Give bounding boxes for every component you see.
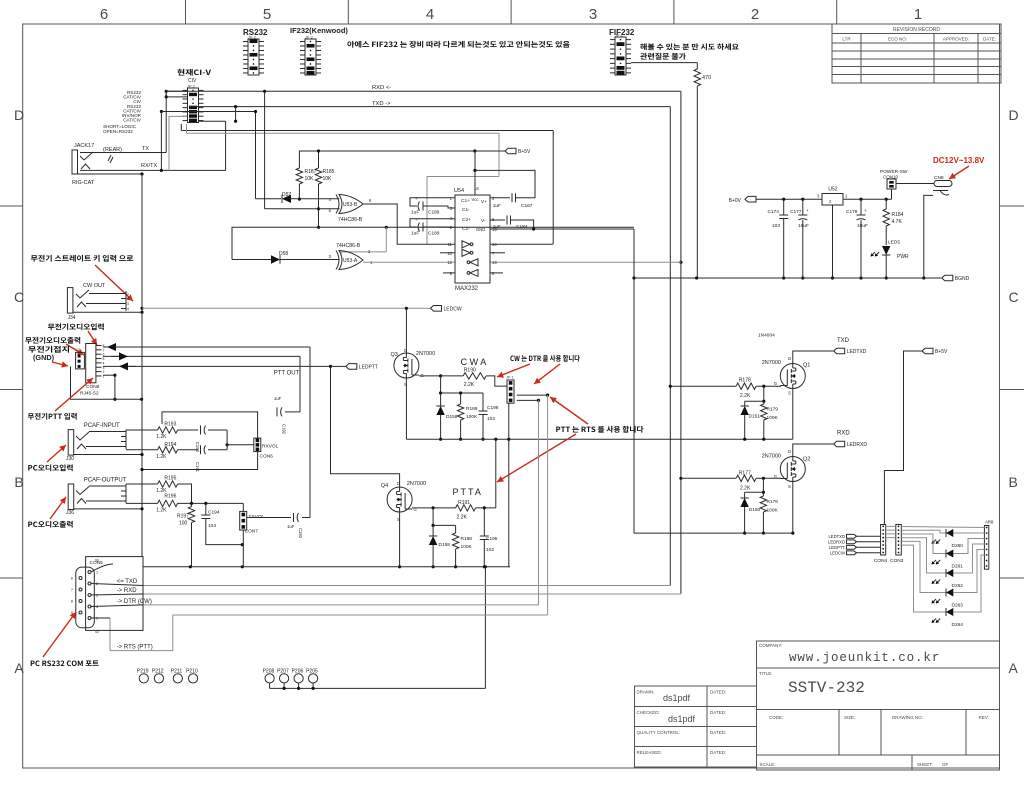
svg-text:1: 1	[914, 6, 922, 23]
svg-text:102: 102	[486, 547, 494, 553]
wires JP-1 right	[517, 394, 548, 396]
svg-text:PWR: PWR	[897, 254, 909, 260]
svg-text:103: 103	[772, 223, 780, 229]
svg-text:2N7000: 2N7000	[762, 360, 781, 366]
svg-text:2.2K: 2.2K	[740, 393, 751, 399]
svg-text:CODE:: CODE:	[769, 715, 783, 720]
svg-text:www.joeunkit.co.kr: www.joeunkit.co.kr	[789, 651, 940, 665]
svg-text:B+5V: B+5V	[518, 149, 531, 155]
svg-text:MAX232: MAX232	[455, 286, 479, 292]
wire sleeve	[73, 311, 142, 313]
svg-text:Q4: Q4	[381, 483, 388, 489]
vertical from CON8 row1	[309, 347, 311, 518]
note: radio ground	[28, 346, 69, 353]
wire Q1 drain to LEDTXD	[793, 351, 834, 364]
wire pads bottom	[270, 687, 486, 689]
wires CON4-CON3	[886, 525, 896, 527]
note: radio audio output	[25, 337, 80, 344]
svg-text:PCAF-OUTPUT: PCAF-OUTPUT	[84, 478, 127, 484]
connector CON8 RJ45-S2	[86, 344, 96, 383]
svg-text:V+: V+	[481, 199, 487, 205]
svg-text:R196: R196	[164, 494, 176, 500]
svg-text:R189: R189	[466, 406, 478, 412]
svg-text:+: +	[415, 217, 418, 222]
svg-text:D264: D264	[952, 622, 964, 628]
wires jack to pins	[89, 293, 121, 295]
wire Q2 drain to LEDRXD	[793, 444, 834, 457]
svg-text:10: 10	[447, 251, 452, 256]
JP-1 bottom vertical	[508, 403, 510, 567]
svg-text:BGND: BGND	[955, 276, 970, 282]
svg-text:1uF: 1uF	[411, 231, 419, 237]
wire jack sleeve	[74, 454, 142, 456]
capacitor C188 1uF	[410, 198, 455, 206]
wire jack sleeve J36	[74, 508, 142, 510]
svg-text:U53-A: U53-A	[343, 258, 358, 264]
RTS lower run	[110, 615, 173, 651]
svg-text:1uF: 1uF	[274, 396, 282, 401]
rail y567	[143, 566, 510, 568]
wire CI-V left pins	[166, 90, 187, 92]
svg-text:CON3: CON3	[890, 558, 904, 564]
svg-text:D151: D151	[749, 414, 761, 420]
svg-text:LEDCW: LEDCW	[830, 551, 845, 556]
svg-text:+: +	[806, 208, 809, 213]
capacitor C187 1uF	[490, 197, 510, 199]
svg-text:LEDCW: LEDCW	[444, 306, 462, 312]
wire CI-V to D57	[161, 111, 255, 113]
wire audio out row	[103, 346, 310, 348]
note: PC RS232 COM port	[31, 660, 99, 666]
rail y533	[634, 532, 793, 534]
svg-text:2.2K: 2.2K	[740, 486, 751, 492]
svg-text:ds1pdf: ds1pdf	[663, 693, 691, 703]
svg-text:B: B	[14, 474, 23, 490]
svg-text:C178: C178	[846, 209, 858, 215]
svg-text:2.2K: 2.2K	[457, 515, 468, 521]
note: FIF232 varies by rig	[347, 41, 569, 48]
wire LEDCW	[140, 307, 143, 310]
svg-text:1.2K: 1.2K	[156, 508, 167, 514]
svg-text:RXVOL: RXVOL	[262, 444, 279, 450]
svg-text:SIZE:: SIZE:	[844, 715, 855, 720]
box bus	[142, 557, 144, 631]
svg-text:LEDRXD: LEDRXD	[847, 442, 868, 448]
svg-text:C187: C187	[521, 203, 533, 209]
resistor 470	[631, 62, 697, 64]
capacitor C193 1uF	[294, 513, 299, 522]
svg-text:R176: R176	[767, 499, 779, 505]
diode D150	[744, 492, 746, 498]
capacitor C184 1uF	[490, 219, 505, 221]
svg-text:CON4: CON4	[874, 558, 888, 564]
svg-text:RELEASED:: RELEASED:	[637, 750, 662, 755]
diode D159	[440, 393, 442, 406]
svg-text:102: 102	[487, 416, 495, 422]
wire PTT row	[103, 365, 331, 367]
svg-text:TXD: TXD	[837, 338, 850, 344]
wire gate A output gray	[363, 261, 455, 263]
svg-text:C1-: C1-	[462, 207, 470, 213]
svg-text:D: D	[788, 356, 791, 361]
LED D261	[901, 534, 946, 554]
svg-text:CIV: CIV	[188, 78, 197, 84]
resistor R197 100	[191, 503, 193, 506]
LED D264	[901, 545, 946, 612]
connector CON6 RXVOL	[254, 438, 261, 452]
ground rail BGND	[634, 277, 942, 279]
svg-text:D: D	[1009, 107, 1019, 123]
long vertical to P205 row	[484, 565, 487, 568]
svg-text:D261: D261	[952, 564, 964, 570]
svg-text:2: 2	[751, 6, 759, 23]
svg-text:66: 66	[95, 559, 99, 563]
svg-text:LED5: LED5	[888, 240, 900, 246]
pull-down network D159 R189 C196	[440, 376, 442, 393]
LED D263	[901, 541, 946, 592]
wire to CON6	[226, 430, 228, 445]
connector CON4	[881, 525, 886, 556]
svg-text:D262: D262	[952, 583, 964, 589]
svg-text:DATE:: DATE:	[983, 37, 996, 42]
wire PTT to Q4 drain	[331, 366, 400, 486]
note: PC audio output	[28, 521, 72, 528]
svg-text:CON6: CON6	[260, 454, 274, 460]
svg-text:R179: R179	[767, 407, 779, 413]
svg-text:COMPANY:: COMPANY:	[759, 643, 782, 648]
note: PC audio input	[28, 464, 72, 471]
svg-text:U53-B: U53-B	[343, 202, 358, 208]
svg-text:R190: R190	[464, 368, 476, 374]
wire RX/TX	[80, 169, 226, 171]
svg-text:LTR: LTR	[842, 37, 851, 42]
svg-text:1uF: 1uF	[287, 524, 295, 529]
svg-text:U52: U52	[828, 187, 837, 193]
svg-text:3: 3	[589, 6, 597, 23]
capacitor C191 1uF	[201, 445, 206, 454]
svg-text:1: 1	[127, 292, 129, 296]
svg-text:S: S	[788, 484, 791, 489]
svg-text:43: 43	[95, 630, 99, 634]
wire audio in row	[103, 355, 300, 357]
capacitor C190 1uF	[201, 426, 206, 435]
svg-text:R188: R188	[461, 536, 473, 542]
resistor R188 100K	[455, 525, 457, 533]
svg-text:5: 5	[263, 6, 271, 23]
svg-text:10K: 10K	[323, 176, 333, 182]
svg-text:100K: 100K	[466, 414, 478, 420]
svg-text:RXD <-: RXD <-	[372, 85, 391, 91]
capacitor C192	[277, 407, 282, 416]
svg-text:2N7000: 2N7000	[407, 481, 426, 487]
svg-text:C1+: C1+	[461, 198, 470, 204]
note: PTT uses RTS	[556, 426, 643, 433]
terminal B+5V right	[922, 348, 933, 354]
left bus continues	[141, 312, 143, 556]
wire CON6 loop	[162, 412, 258, 438]
svg-text:J30: J30	[66, 456, 74, 462]
LED D260	[901, 530, 946, 533]
svg-text:LEDTXD: LEDTXD	[847, 349, 867, 355]
resistor R185 10K	[318, 151, 320, 168]
svg-text:11: 11	[448, 242, 453, 247]
svg-text:2.2K: 2.2K	[464, 382, 475, 388]
svg-text:1N4004: 1N4004	[758, 333, 775, 339]
svg-text:REVISION RECORD: REVISION RECORD	[893, 27, 940, 33]
svg-text:13: 13	[492, 260, 497, 265]
svg-text:LEDTXD: LEDTXD	[828, 534, 845, 539]
wire GND pin15	[490, 228, 634, 230]
svg-text:470: 470	[702, 75, 711, 81]
note: radio PTT input	[28, 413, 77, 420]
svg-text:12: 12	[447, 260, 452, 265]
svg-text:C188: C188	[428, 210, 440, 216]
svg-text:Vcc: Vcc	[472, 197, 479, 202]
svg-text:6: 6	[71, 577, 73, 581]
resistor R179 100K	[763, 401, 765, 404]
svg-text:C190: C190	[195, 442, 200, 453]
svg-text:7: 7	[71, 588, 73, 592]
svg-text:4: 4	[96, 605, 98, 609]
pin column	[121, 293, 126, 295]
wire B+5V rail	[299, 151, 505, 166]
svg-text:10K: 10K	[305, 176, 315, 182]
connector CON3	[896, 525, 902, 556]
connector JP-2 hyeonjae CI-V	[177, 69, 211, 76]
svg-text:3: 3	[127, 302, 129, 306]
svg-text:1uF: 1uF	[493, 203, 501, 209]
wire Q1 source	[792, 389, 794, 440]
svg-text:J34: J34	[68, 315, 76, 321]
wire pin8 down	[103, 374, 115, 376]
svg-text:4: 4	[426, 6, 434, 23]
svg-text:4: 4	[127, 307, 129, 311]
svg-text:Q2: Q2	[803, 457, 810, 463]
svg-text:D159: D159	[446, 414, 458, 420]
svg-text:-> RTS (PTT): -> RTS (PTT)	[117, 645, 153, 651]
svg-text:SSTV-232: SSTV-232	[788, 679, 865, 697]
gnd wire y227	[232, 227, 634, 259]
DB9 pin wires	[91, 564, 113, 572]
svg-text:V-: V-	[481, 218, 486, 224]
svg-text:R187: R187	[305, 169, 317, 175]
IC U54 MAX232	[455, 195, 490, 283]
svg-text:4.7K: 4.7K	[892, 219, 903, 225]
svg-text:C2+: C2+	[462, 217, 471, 223]
svg-text:1: 1	[96, 571, 98, 575]
svg-text:103: 103	[208, 523, 216, 529]
svg-text:12: 12	[76, 348, 80, 352]
svg-text:100K: 100K	[461, 544, 473, 550]
svg-text:AR8: AR8	[985, 520, 994, 525]
svg-text:DATED:: DATED:	[710, 710, 726, 715]
wire sleeve to left bus	[78, 173, 143, 175]
resistor R187 10K	[298, 166, 300, 168]
svg-text:B+5V: B+5V	[935, 349, 948, 355]
svg-text:CWA: CWA	[461, 357, 489, 367]
svg-text:100K: 100K	[767, 508, 779, 514]
svg-text:QUALITY CONTROL:: QUALITY CONTROL:	[637, 730, 681, 735]
svg-text:C193: C193	[298, 528, 303, 539]
svg-text:CHECKED:: CHECKED:	[637, 710, 660, 715]
left ground bus	[141, 174, 143, 312]
svg-text:DRAWN:: DRAWN:	[637, 690, 655, 695]
svg-text:D158: D158	[439, 542, 451, 548]
note: try only if you can	[640, 43, 738, 50]
drawn/checked block	[635, 686, 757, 767]
resistor R189 100K	[460, 393, 462, 404]
wire RXD net top	[166, 90, 681, 92]
svg-text:Q1: Q1	[803, 363, 810, 369]
svg-text:LEDPTT: LEDPTT	[359, 364, 378, 370]
svg-text:SCALE:: SCALE:	[760, 762, 776, 767]
wire B+5V down to CON4	[884, 351, 922, 525]
resistor R184 4.7K	[885, 199, 887, 209]
svg-text:APPROVED:: APPROVED:	[943, 37, 969, 42]
svg-text:G: G	[774, 381, 777, 386]
svg-text:(GND): (GND)	[33, 353, 55, 362]
svg-text:TX: TX	[142, 146, 149, 152]
regulator U52	[822, 194, 843, 206]
svg-text:R185: R185	[323, 169, 335, 175]
note: CW uses DTR	[510, 355, 580, 362]
wire TX	[80, 152, 166, 154]
svg-text:D: D	[14, 107, 24, 123]
D150 R176 pulldown	[762, 478, 764, 492]
resistor R176 100K	[762, 492, 764, 496]
LED D262	[901, 538, 946, 573]
svg-text:3: 3	[96, 594, 98, 598]
svg-text:DATED:: DATED:	[710, 690, 726, 695]
PC RTS wire	[173, 614, 548, 616]
svg-text:-> RXD: -> RXD	[117, 588, 138, 594]
svg-text:OPEN=RS232: OPEN=RS232	[103, 129, 133, 134]
svg-text:C174: C174	[768, 209, 780, 215]
LEDs D260-D264 with routing	[901, 527, 984, 528]
svg-text:R184: R184	[892, 212, 904, 218]
svg-text:2: 2	[127, 297, 129, 301]
svg-text:REV:: REV:	[979, 715, 989, 720]
svg-text:2N7000: 2N7000	[416, 351, 435, 357]
svg-text:2N7000: 2N7000	[762, 454, 781, 460]
svg-text:JACK17: JACK17	[74, 143, 94, 149]
diode D158	[432, 525, 434, 536]
wire Q2 source	[792, 482, 794, 534]
svg-text:D260: D260	[952, 543, 964, 549]
svg-text:C: C	[1009, 289, 1019, 305]
svg-text:DRAWING NO:: DRAWING NO:	[892, 715, 923, 720]
gate U53-B 74HC86	[265, 208, 340, 210]
svg-text:J36: J36	[66, 510, 74, 516]
revision record table	[832, 24, 1001, 83]
pull-down network D158 R188 C195	[432, 508, 434, 526]
wire TXD net top	[189, 106, 670, 108]
svg-text:ECO NO:: ECO NO:	[888, 37, 907, 42]
svg-text:B: B	[1009, 474, 1018, 490]
svg-text:S: S	[788, 391, 791, 396]
connector J small	[76, 352, 85, 369]
PC RXD wire	[143, 593, 681, 595]
wire to U53-B pin5	[263, 90, 266, 93]
svg-text:U54: U54	[454, 188, 464, 194]
svg-text:CON7: CON7	[245, 529, 259, 535]
svg-text:6: 6	[100, 6, 108, 23]
svg-text:74HC86-B: 74HC86-B	[336, 243, 361, 249]
svg-text:PTTA: PTTA	[453, 487, 483, 497]
svg-text:C196: C196	[487, 405, 499, 411]
svg-text:IF232(Kenwood): IF232(Kenwood)	[290, 26, 348, 35]
wire CON7 mid to C193	[247, 517, 291, 519]
vertical from CON8 row2	[299, 356, 301, 412]
title block	[757, 641, 1000, 770]
svg-text:DATED:: DATED:	[710, 750, 726, 755]
svg-text:PTT OUT: PTT OUT	[274, 371, 300, 377]
svg-text:D: D	[788, 449, 791, 454]
wire CI-V bottom to MAX232 pin14	[180, 124, 182, 131]
svg-text:-> DTR (CW): -> DTR (CW)	[117, 599, 152, 605]
terminal B+5V	[505, 148, 516, 154]
svg-text:ds1pdf: ds1pdf	[668, 714, 696, 724]
svg-text:DC12V~13.8V: DC12V~13.8V	[933, 156, 985, 165]
svg-text:74HC86-B: 74HC86-B	[338, 217, 363, 223]
svg-text:R178: R178	[739, 378, 751, 384]
svg-text:C: C	[14, 289, 24, 305]
svg-text:TITLE:: TITLE:	[759, 671, 773, 676]
stubs right pins	[490, 252, 505, 254]
svg-text:JP-1: JP-1	[506, 376, 514, 380]
svg-text:C189: C189	[428, 231, 440, 237]
svg-text:1.2K: 1.2K	[156, 434, 167, 440]
svg-text:SHEET:: SHEET:	[917, 762, 933, 767]
svg-text:16uF: 16uF	[798, 223, 809, 229]
svg-text:C2-: C2-	[462, 226, 470, 232]
svg-text:LEDPTT: LEDPTT	[829, 545, 845, 550]
resistor R191 2.2K	[412, 507, 433, 509]
capacitor C189 1uF	[410, 219, 455, 227]
wire gnd loop	[71, 366, 142, 399]
svg-text:A: A	[1009, 660, 1019, 676]
wire gray loop	[186, 124, 188, 133]
wire gate B out to MAX232 pin11	[363, 204, 455, 244]
resistor R190 2.2K	[419, 375, 441, 377]
svg-text:RX/TX: RX/TX	[141, 163, 158, 169]
svg-text:CON8: CON8	[86, 384, 100, 390]
note: radio audio input	[48, 323, 104, 330]
svg-text:8: 8	[71, 600, 73, 604]
wire MAX232 pin14	[490, 243, 553, 245]
svg-text:TXD ->: TXD ->	[372, 101, 391, 107]
svg-text:B+0V: B+0V	[729, 198, 742, 204]
connector CON7 TXVOL	[242, 503, 244, 511]
diode D151	[744, 401, 746, 406]
svg-text:10uF: 10uF	[857, 223, 868, 229]
svg-text:+: +	[864, 208, 867, 213]
svg-text:RJ45-S2: RJ45-S2	[80, 391, 99, 397]
svg-text:LEDRXD: LEDRXD	[828, 540, 845, 545]
svg-text:D: D	[397, 481, 400, 486]
PC TXD wire	[143, 585, 670, 587]
svg-text:CAT/CIV: CAT/CIV	[123, 118, 142, 123]
svg-text:100: 100	[179, 521, 188, 527]
note: radio straight key input	[31, 255, 133, 262]
svg-text:GND: GND	[476, 227, 485, 232]
svg-text:<= TXD: <= TXD	[117, 579, 138, 585]
svg-text:+: +	[415, 196, 418, 201]
svg-text:PCAF-INPUT: PCAF-INPUT	[84, 423, 120, 429]
terminal LEDCW	[431, 306, 442, 312]
svg-text:C177: C177	[790, 209, 802, 215]
svg-text:A: A	[14, 660, 24, 676]
